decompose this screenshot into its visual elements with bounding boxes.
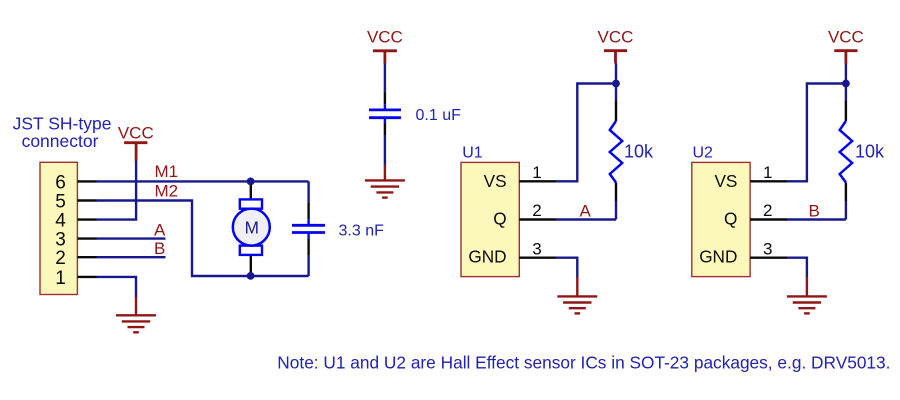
net label A at U1 pin2 [580, 201, 592, 220]
svg-text:VCC: VCC [118, 124, 154, 143]
svg-text:Q: Q [724, 208, 737, 228]
resistor R2 zigzag [840, 121, 852, 183]
U1 pin names VS Q GND [468, 171, 506, 266]
wire B stub (pin2) [97, 256, 166, 258]
net label B at U2 pin2 [809, 201, 820, 220]
wire M1 net (pin6 to motor top) [97, 180, 309, 182]
ground symbol at connector [116, 297, 156, 333]
motor M body [233, 209, 270, 246]
svg-text:connector: connector [22, 131, 99, 151]
svg-text:Note: U1 and U2 are Hall Effec: Note: U1 and U2 are Hall Effect sensor I… [277, 353, 890, 373]
ground symbol U1 [557, 277, 597, 314]
VCC symbol at connector [118, 124, 154, 161]
svg-text:M: M [245, 218, 259, 238]
wire A stub (pin3) [97, 237, 166, 239]
net label M2 [155, 181, 179, 200]
svg-text:1: 1 [532, 163, 541, 182]
svg-text:VCC: VCC [367, 28, 403, 47]
ground symbol U2 [787, 277, 827, 314]
svg-text:2: 2 [532, 201, 541, 220]
U2 pin lines (black) [750, 181, 787, 257]
designator U1 [462, 145, 483, 162]
junction dot motor bottom [247, 272, 255, 280]
svg-text:0.1 uF: 0.1 uF [416, 107, 462, 124]
svg-text:A: A [580, 201, 592, 220]
IC U1 body [461, 162, 519, 276]
svg-text:1: 1 [763, 163, 772, 182]
U2 pin names VS Q GND [699, 171, 737, 266]
resistor R2 leads [845, 87, 847, 220]
svg-text:5: 5 [55, 191, 66, 212]
value label 10k (R2) [855, 142, 885, 162]
designator U2 [693, 145, 714, 162]
IC U2 body [692, 162, 750, 276]
wire M2 net (pin5 down and to motor bottom) [97, 201, 309, 277]
wire U1 pin1 to VCC junction [556, 84, 616, 182]
VCC symbol above C1 [367, 28, 403, 64]
junction dot motor top [247, 178, 255, 186]
capacitor C1 0.1uF leads [384, 64, 386, 166]
wire U2 pin2 (B net) to resistor R2 [787, 218, 846, 220]
svg-text:M1: M1 [155, 162, 179, 181]
VCC symbol above R1 [598, 28, 634, 64]
U2 pin numbers 1 2 3 [763, 163, 772, 258]
wire VCC to junction U2 [845, 64, 847, 88]
svg-text:10k: 10k [855, 142, 885, 162]
svg-text:VS: VS [484, 171, 507, 191]
svg-text:VS: VS [714, 171, 737, 191]
svg-text:Q: Q [493, 208, 506, 228]
svg-text:VCC: VCC [828, 28, 864, 47]
svg-text:2: 2 [763, 201, 772, 220]
svg-text:U1: U1 [462, 145, 483, 162]
svg-text:4: 4 [55, 211, 66, 232]
capacitor C1 plates [369, 110, 401, 118]
J1 pin number labels 6..1 [55, 172, 66, 288]
wire VCC to junction U1 [615, 64, 617, 88]
net label A [154, 221, 166, 240]
J1 pin stubs [77, 181, 96, 277]
capacitor C2 3.3nF leads [307, 181, 309, 276]
resistor R1 zigzag [610, 121, 622, 183]
note text [277, 353, 890, 373]
svg-text:6: 6 [55, 172, 66, 193]
U1 pin lines (black) [519, 181, 556, 257]
svg-text:M2: M2 [155, 181, 179, 200]
wire U2 pin1 to VCC junction [787, 84, 846, 182]
svg-text:3: 3 [763, 239, 772, 258]
value label 10k (R1) [624, 142, 654, 162]
svg-text:3.3 nF: 3.3 nF [339, 222, 385, 239]
wire pin4 to VCC [97, 160, 137, 219]
wire U1 pin2 (A net) to resistor R1 [556, 218, 616, 220]
svg-text:U2: U2 [693, 145, 714, 162]
wire pin1 to ground [97, 277, 137, 297]
VCC symbol above R2 [828, 28, 864, 64]
svg-text:VCC: VCC [598, 28, 634, 47]
U1 pin numbers 1 2 3 [532, 163, 541, 258]
connector J1 body [40, 162, 77, 294]
junction dot U1 [612, 80, 620, 88]
value label 0.1 uF [416, 107, 462, 124]
label: JST SH-type connector [13, 114, 112, 152]
junction dot U2 [842, 80, 850, 88]
svg-text:1: 1 [55, 268, 66, 289]
svg-text:A: A [154, 221, 166, 240]
resistor R1 leads [615, 87, 617, 220]
svg-text:3: 3 [532, 239, 541, 258]
svg-text:10k: 10k [624, 142, 654, 162]
svg-text:GND: GND [699, 246, 737, 266]
net label M1 [155, 162, 179, 181]
value label 3.3 nF [339, 222, 385, 239]
motor M black leads [250, 181, 252, 276]
svg-text:2: 2 [55, 248, 66, 269]
capacitor C2 plates [292, 225, 325, 232]
ground symbol below C1 [365, 165, 405, 198]
svg-text:GND: GND [468, 246, 506, 266]
svg-text:B: B [154, 239, 165, 258]
net label B [154, 239, 165, 258]
wire U1 pin3 to ground [556, 258, 577, 278]
wire U2 pin3 to ground [787, 258, 807, 278]
svg-text:B: B [809, 201, 820, 220]
motor M terminal blocks [240, 199, 262, 255]
